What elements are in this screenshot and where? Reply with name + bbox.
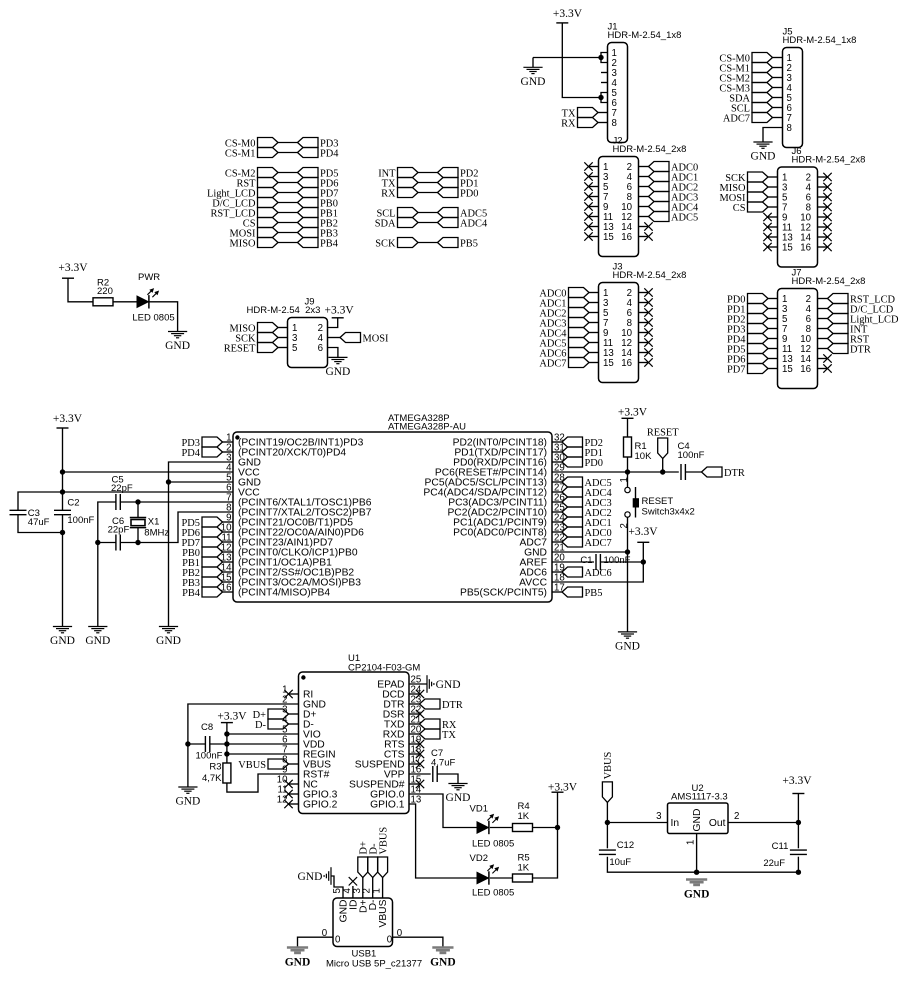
wire REGIN pin7 <box>227 753 299 755</box>
svg-text:100nF: 100nF <box>678 450 705 461</box>
net flag PD2 (J7 pin5) <box>748 314 769 324</box>
svg-text:CS-M1: CS-M1 <box>225 149 256 160</box>
net flag PD0 (J7 pin1) <box>748 294 769 304</box>
wire VPP pin16 to C7 <box>409 773 431 775</box>
svg-text:GND: GND <box>297 871 322 883</box>
net flag ADC7 (J3 pin15) <box>569 358 590 368</box>
no-connect J7 pin16 <box>818 368 828 370</box>
net label pair SCK-PB5 <box>398 238 419 248</box>
svg-text:GPIO.2: GPIO.2 <box>303 800 338 811</box>
capacitor C5 22pF <box>115 494 117 510</box>
net flag VBUS (USB1 pin1) <box>382 878 384 899</box>
resistor R4 1K <box>513 824 533 832</box>
no-connect J6 pin15 <box>768 246 778 248</box>
svg-text:4,7K: 4,7K <box>202 773 222 784</box>
net flag RST (J7 pin10) <box>818 338 828 340</box>
wire R3 to RST# pin9 <box>227 774 299 792</box>
wire switch to ground rail <box>627 517 629 632</box>
wire GND pin21 <box>552 551 628 553</box>
wire USB1 shield right to GND <box>393 937 443 947</box>
regulator U2 AMS1117-3.3 outline <box>668 803 729 834</box>
net label pair INT-PD2 <box>398 168 419 178</box>
net flag MOSI (J9 pin4) <box>328 337 341 339</box>
ground (C7) <box>448 783 467 785</box>
junction (REGIN) <box>224 751 229 756</box>
no-connect U1 pin11 <box>289 793 299 795</box>
svg-text:(PCINT4/MISO)PB4: (PCINT4/MISO)PB4 <box>238 588 330 599</box>
net flag Light_LCD (J7 pin6) <box>818 318 828 320</box>
wire VIO pin5 <box>227 733 299 735</box>
svg-text:HDR-M-2.54_2x8: HDR-M-2.54_2x8 <box>613 270 687 281</box>
svg-text:GND: GND <box>165 340 190 352</box>
pushbutton SW1 RESET Switch3x4x2 <box>625 487 630 492</box>
net flag INT (J7 pin8) <box>818 328 828 330</box>
wire R1 to reset net <box>627 457 629 472</box>
junction (rail/pin4) <box>60 469 65 474</box>
no-connect J2 pin13 <box>589 226 599 228</box>
svg-text:GND: GND <box>50 635 75 647</box>
net flag ADC2 (U3 pin25) <box>552 511 562 513</box>
ground (U2, bold) <box>686 878 707 881</box>
svg-text:100nF: 100nF <box>604 555 631 566</box>
junction (C3/C2 gnd) <box>60 530 65 535</box>
net flag D/C_LCD (J7 pin4) <box>818 308 828 310</box>
net label pair MISO-PB4 <box>258 238 279 248</box>
net flag PD1 (J7 pin3) <box>748 304 769 314</box>
svg-text:C1: C1 <box>580 555 592 566</box>
net flag ADC0 (J2 pin2) <box>639 166 649 168</box>
svg-text:15: 15 <box>603 358 614 369</box>
ground (USB1 pin5, rotated) <box>330 867 332 885</box>
svg-text:LED 0805: LED 0805 <box>132 313 174 324</box>
no-connect J2 pin15 <box>589 236 599 238</box>
power +3.3V (J1) <box>556 22 568 24</box>
power +3.3V (U2 output) <box>792 793 804 795</box>
no-connect J2 pin3 <box>589 176 599 178</box>
net flag SCK (J9 pin3) <box>258 333 279 343</box>
svg-text:1K: 1K <box>518 811 530 822</box>
net label pair RX-PD0 <box>398 188 419 198</box>
capacitor C8 100nF <box>204 736 206 752</box>
svg-text:PD7: PD7 <box>727 365 745 376</box>
capacitor C4 100nF <box>680 464 682 480</box>
svg-text:Switch3x4x2: Switch3x4x2 <box>642 507 695 518</box>
svg-text:+3.3V: +3.3V <box>325 305 355 317</box>
svg-text:RESET: RESET <box>642 496 674 507</box>
wire VCC pin4 to rail <box>63 471 234 473</box>
svg-text:6: 6 <box>318 343 323 354</box>
svg-text:PD4: PD4 <box>320 149 339 160</box>
wire AREF pin20 to C1 <box>552 561 594 563</box>
power +3.3V (VD1/VD2) <box>552 791 564 793</box>
svg-text:8: 8 <box>787 123 792 134</box>
svg-text:1: 1 <box>619 477 630 482</box>
no-connect J2 pin11 <box>589 216 599 218</box>
net flag PD3 (U3 pin1) <box>202 437 223 447</box>
junction (C6/gnd rail) <box>95 540 100 545</box>
wire R2 to LED <box>113 301 137 303</box>
svg-text:+3.3V: +3.3V <box>53 413 83 425</box>
svg-text:10uF: 10uF <box>609 857 631 868</box>
svg-text:16: 16 <box>621 232 632 243</box>
svg-text:PWR: PWR <box>138 272 160 283</box>
net label pair CS-M2-PD5 <box>258 168 279 178</box>
svg-text:SDA: SDA <box>375 219 396 230</box>
wire bottom gnd rail <box>607 857 798 873</box>
net flag ADC0 (U3 pin23) <box>552 531 562 533</box>
net flag ADC4 (J2 pin10) <box>639 206 649 208</box>
no-connect J6 pin4 <box>818 186 828 188</box>
wire C11 to bottom <box>797 857 799 873</box>
svg-text:GND: GND <box>85 635 110 647</box>
wire C8 left <box>188 743 206 745</box>
wire +3.3V to J1 pins5-6 <box>562 23 601 98</box>
LED PWR (LED 0805) <box>137 296 148 307</box>
svg-text:5: 5 <box>292 343 297 354</box>
capacitor C7 4,7uF <box>432 766 434 782</box>
connector J9 outline <box>288 318 328 368</box>
net flag PD5 (U3 pin9) <box>202 517 223 527</box>
svg-text:SCK: SCK <box>375 239 396 250</box>
resistor R1 10K <box>624 437 632 457</box>
svg-text:+3.3V: +3.3V <box>58 262 88 274</box>
svg-text:ADC5: ADC5 <box>671 213 698 224</box>
net label pair Light_LCD-PD7 <box>258 188 279 198</box>
power +3.3V (VCC rail) <box>57 427 69 429</box>
no-connect U1 pin15 <box>409 783 420 785</box>
net flag SCK (J6 pin1) <box>748 172 769 182</box>
connector J6 outline <box>778 167 818 267</box>
svg-text:GND: GND <box>436 679 461 691</box>
junction (rail/pin6) <box>60 489 65 494</box>
wire cap gnd rail <box>97 543 99 627</box>
net flag ADC3 (J2 pin8) <box>639 196 649 198</box>
svg-text:PD4: PD4 <box>182 448 201 459</box>
ground (J5) <box>753 141 772 143</box>
svg-text:C11: C11 <box>772 841 789 852</box>
svg-text:HDR-M-2.54 2x3: HDR-M-2.54 2x3 <box>247 305 321 316</box>
svg-text:HDR-M-2.54_2x8: HDR-M-2.54_2x8 <box>613 144 687 155</box>
svg-text:MOSI: MOSI <box>363 334 390 345</box>
wire VBUS to In <box>606 802 608 822</box>
capacitor C6 22pF <box>115 535 117 551</box>
wire LED to GND <box>149 302 178 332</box>
svg-text:+3.3V: +3.3V <box>782 775 812 787</box>
wire VD1 to R4 <box>490 827 513 829</box>
resistor R3 4,7K <box>223 763 231 783</box>
no-connect J2 pin14 <box>639 226 649 228</box>
svg-text:HDR-M-2.54_1x8: HDR-M-2.54_1x8 <box>783 35 857 46</box>
wire U2 GND pin1 <box>696 834 698 873</box>
no-connect J6 pin10 <box>818 216 828 218</box>
wire U2 Out to +3.3V <box>728 822 798 824</box>
no-connect J6 pin8 <box>818 206 828 208</box>
microcontroller U3 ATMEGA328P outline <box>233 432 552 602</box>
net flag RX (U1 pin21 TXD) <box>409 723 420 725</box>
capacitor C1 100nF <box>595 554 597 570</box>
wire XTAL1 pin7 net <box>120 501 233 503</box>
junction (J1 pin1-2) <box>598 55 603 60</box>
wire GPIO.1 pin13 to VD2 <box>409 804 477 878</box>
net flag RESET (J9 pin5) <box>258 343 279 353</box>
power +3.3V (R1) <box>622 417 634 419</box>
no-connect J6 pin2 <box>818 176 828 178</box>
wire +3.3V to AREF node <box>642 542 644 562</box>
ground (U3 GND pins) <box>159 626 178 628</box>
svg-text:X1: X1 <box>148 517 160 528</box>
power +3.3V (U1) <box>221 722 233 724</box>
net flag CS-M0 (J5 pin1) <box>752 53 773 63</box>
net flag ADC5 (U3 pin28) <box>552 481 562 483</box>
svg-text:0: 0 <box>322 928 328 939</box>
svg-text:GND: GND <box>156 635 181 647</box>
ground (J9) <box>328 356 347 358</box>
net flag DTR (J7 pin12) <box>818 348 828 350</box>
no-connect J6 pin14 <box>818 236 828 238</box>
wire J5 pin8 to GND <box>763 128 783 143</box>
junction (U2 gnd) <box>694 870 699 875</box>
no-connect J2 pin5 <box>589 186 599 188</box>
net flag RESET (vertical) <box>658 438 668 459</box>
net flag CS (J6 pin7) <box>748 202 769 212</box>
net flag TX (U1 pin20 RXD) <box>409 733 420 735</box>
svg-text:ATMEGA328P-AU: ATMEGA328P-AU <box>388 422 466 433</box>
svg-text:RX: RX <box>381 189 396 200</box>
wire U1 GND pin2 <box>188 704 299 787</box>
no-connect J7 pin14 <box>818 358 828 360</box>
net flag VBUS (U1 pin8) <box>268 759 289 769</box>
no-connect J3 pin4 <box>639 302 649 304</box>
wire C1 to +3.3V node <box>600 561 643 563</box>
no-connect J3 pin16 <box>639 362 649 364</box>
svg-text:10K: 10K <box>635 451 653 462</box>
svg-text:PB5: PB5 <box>460 239 478 250</box>
net label pair D/C_LCD-PB0 <box>258 198 279 208</box>
svg-text:ADC7: ADC7 <box>539 359 566 370</box>
net flag PD7 (J7 pin15) <box>748 364 769 374</box>
no-connect J2 pin16 <box>639 236 649 238</box>
net flag RX (J1 pin8) <box>578 118 599 128</box>
net flag PD6 (U3 pin10) <box>202 527 223 537</box>
wire C8 right <box>210 743 227 745</box>
svg-text:GND: GND <box>285 957 311 969</box>
net flag ADC5 (J3 pin11) <box>569 338 590 348</box>
net flag ADC1 (J3 pin3) <box>569 298 590 308</box>
svg-text:PD0: PD0 <box>460 189 478 200</box>
junction (R4/+3.3V) <box>555 825 560 830</box>
net flag CS-M1 (J5 pin2) <box>752 63 773 73</box>
no-connect J2 pin7 <box>589 196 599 198</box>
svg-text:GND: GND <box>521 76 546 88</box>
svg-text:CS: CS <box>733 203 746 214</box>
svg-text:22uF: 22uF <box>763 858 785 869</box>
no-connect J6 pin13 <box>768 236 778 238</box>
svg-text:DTR: DTR <box>850 345 871 356</box>
net label pair SDA-ADC4 <box>398 218 419 228</box>
wire J9 pin6 to GND <box>328 348 338 358</box>
net flag D- (U1 pin4) <box>268 719 289 729</box>
svg-text:HDR-M-2.54_2x8: HDR-M-2.54_2x8 <box>792 276 866 287</box>
ground (PWR LED) <box>168 331 187 333</box>
net flag SCL (J5 pin6) <box>752 103 773 113</box>
net label pair SCL-ADC5 <box>398 208 419 218</box>
no-connect J6 pin11 <box>768 226 778 228</box>
junction (J1 pin5-6) <box>598 95 603 100</box>
svg-text:16: 16 <box>800 364 811 375</box>
net flag RST_LCD (J7 pin2) <box>818 298 828 300</box>
wire VDD pin6 <box>227 743 299 745</box>
J1 pin3 stub <box>601 72 608 74</box>
svg-text:3: 3 <box>656 811 661 822</box>
svg-text:Micro USB 5P_c21377: Micro USB 5P_c21377 <box>326 959 422 970</box>
net flag CS-M2 (J5 pin3) <box>752 73 773 83</box>
wire AVCC pin18 <box>552 562 643 582</box>
junction (X1 bottom) <box>135 540 140 545</box>
connector J2 outline <box>599 157 639 257</box>
wire XTAL2 pin8 net <box>120 512 233 543</box>
svg-text:DTR: DTR <box>442 700 463 711</box>
svg-text:+3.3V: +3.3V <box>548 782 578 794</box>
net flag ADC3 (J3 pin7) <box>569 318 590 328</box>
svg-text:22pF: 22pF <box>108 524 130 535</box>
junction (Out/+3.3V rail) <box>796 820 801 825</box>
wire C4 to DTR <box>685 471 701 473</box>
svg-text:VD1: VD1 <box>470 804 488 815</box>
net flag MISO (J6 pin3) <box>748 182 769 192</box>
wire PC6 reset net <box>552 471 679 473</box>
junction (C8/gnd rail) <box>185 741 190 746</box>
svg-text:GND: GND <box>430 957 456 969</box>
wire GND pin5 to ground <box>169 481 234 483</box>
ATMEGA328P pin1 mark <box>235 435 239 439</box>
svg-text:D-: D- <box>255 720 267 731</box>
net flag D- (USB1 pin2) <box>372 878 374 899</box>
net flag MISO (J9 pin1) <box>258 323 279 333</box>
connector J1 outline <box>608 43 628 143</box>
net flag SDA (J5 pin5) <box>752 93 773 103</box>
wire C2 bottom to GND <box>62 515 64 627</box>
svg-text:4,7uF: 4,7uF <box>431 758 455 769</box>
wire +3.3V rail (U1) <box>226 723 228 763</box>
LED VD1 (LED 0805) <box>477 822 488 833</box>
net flag D+ (USB1 pin3) <box>362 878 364 899</box>
junction (pin3/pin5 gnd) <box>166 479 171 484</box>
no-connect J3 pin12 <box>639 342 649 344</box>
svg-text:GND: GND <box>175 796 200 808</box>
net flag TX (J1 pin7) <box>578 108 599 118</box>
svg-text:VD2: VD2 <box>470 853 488 864</box>
svg-text:0: 0 <box>387 935 393 946</box>
svg-text:1: 1 <box>686 840 697 845</box>
net label pair CS-M1-PD4 <box>258 148 279 158</box>
svg-text:22pF: 22pF <box>111 483 133 494</box>
net label pair CS-PB2 <box>258 218 279 228</box>
ground (J1) <box>532 58 534 68</box>
net flag ADC0 (J3 pin1) <box>569 288 590 298</box>
junction (AREF/AVCC node) <box>641 559 646 564</box>
junction (R1/reset) <box>625 469 630 474</box>
net flag PD0 (U3 pin30) <box>552 461 562 463</box>
wire C12 top <box>606 823 608 849</box>
svg-text:CP2104-F03-GM: CP2104-F03-GM <box>348 663 420 674</box>
wire C3 bottom to rail <box>18 515 63 533</box>
svg-text:GND: GND <box>325 366 350 378</box>
net flag ADC5 (J2 pin12) <box>639 216 649 218</box>
net flag ADC6 (U3 pin19) <box>552 571 562 573</box>
wire J9 pin2 to +3.3V <box>328 318 338 328</box>
net flag PB3 (U3 pin15) <box>202 577 223 587</box>
svg-text:Out: Out <box>709 818 726 829</box>
svg-text:GND: GND <box>751 151 776 163</box>
svg-text:PB4: PB4 <box>182 588 201 599</box>
net flag PD3 (J7 pin7) <box>748 324 769 334</box>
net flag CS-M3 (J5 pin4) <box>752 83 773 93</box>
svg-text:2: 2 <box>734 811 739 822</box>
svg-text:R3: R3 <box>209 762 221 773</box>
svg-text:220: 220 <box>97 286 113 297</box>
junction (pin21/gnd rail) <box>625 549 630 554</box>
svg-text:C2: C2 <box>67 498 79 509</box>
no-connect J6 pin12 <box>818 226 828 228</box>
net flag ADC7 (J5 pin7) <box>752 113 773 123</box>
net label pair CS-M0-PD3 <box>258 138 279 148</box>
wire reset to switch <box>627 472 629 487</box>
net flag ADC4 (J3 pin9) <box>569 328 590 338</box>
ground (USB1 right, bold) <box>432 946 453 949</box>
net flag PD4 (J7 pin9) <box>748 334 769 344</box>
resistor R2 220 <box>93 298 113 306</box>
net flag D+ (U1 pin3) <box>268 709 289 719</box>
J1 pin4 stub <box>601 82 608 84</box>
svg-text:15: 15 <box>603 232 614 243</box>
wire C7 to GND <box>437 774 458 784</box>
net flag MOSI (J6 pin5) <box>748 192 769 202</box>
net label pair MOSI-PB3 <box>258 228 279 238</box>
wire EPAD pin25 to GND <box>409 683 427 685</box>
net flag PB5 (U3 pin17) <box>552 591 562 593</box>
no-connect U1 pin17 <box>409 763 420 765</box>
svg-text:PD0: PD0 <box>585 458 603 469</box>
wire GND to J1 pins1-2 <box>533 57 601 59</box>
wire USB1 pin5 to GND <box>331 876 343 898</box>
svg-text:+3.3V: +3.3V <box>628 526 658 538</box>
svg-text:MISO: MISO <box>230 239 256 250</box>
wire GPIO.0 pin14 to VD1 <box>409 794 477 828</box>
junction (VIO) <box>224 731 229 736</box>
svg-text:+3.3V: +3.3V <box>217 711 247 723</box>
net flag PD7 (U3 pin11) <box>202 537 223 547</box>
net flag ADC1 (U3 pin24) <box>552 521 562 523</box>
wire VBUS node to U2 In <box>607 822 667 824</box>
svg-text:PB4: PB4 <box>320 239 339 250</box>
connector J3 outline <box>599 283 639 383</box>
net flag PB0 (U3 pin12) <box>202 547 223 557</box>
net flag PD6 (J7 pin13) <box>748 354 769 364</box>
svg-text:GPIO.1: GPIO.1 <box>370 800 405 811</box>
svg-text:ADC7: ADC7 <box>585 538 612 549</box>
capacitor C11 22uF <box>790 849 807 851</box>
wire +3.3V to R1 <box>627 418 629 437</box>
ground (C5/C6) <box>88 626 107 628</box>
svg-text:VBUS: VBUS <box>378 899 389 927</box>
power +3.3V (AVCC) <box>637 541 649 543</box>
power +3.3V (PWR LED) <box>62 277 74 279</box>
no-connect J2 pin9 <box>589 206 599 208</box>
svg-text:+3.3V: +3.3V <box>553 8 583 20</box>
net flag VBUS (U2 input, vertical) <box>602 782 612 803</box>
svg-text:VBUS: VBUS <box>238 760 266 771</box>
ground (U1 GND) <box>178 786 197 788</box>
